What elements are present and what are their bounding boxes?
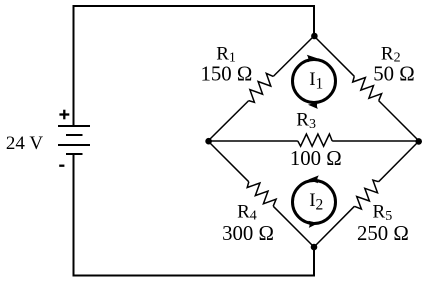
svg-text:50 Ω: 50 Ω	[373, 63, 414, 86]
svg-text:300 Ω: 300 Ω	[222, 222, 274, 245]
svg-text:24 V: 24 V	[6, 133, 43, 154]
svg-text:150 Ω: 150 Ω	[200, 63, 252, 86]
svg-text:100 Ω: 100 Ω	[290, 147, 342, 170]
svg-text:250 Ω: 250 Ω	[357, 222, 409, 245]
